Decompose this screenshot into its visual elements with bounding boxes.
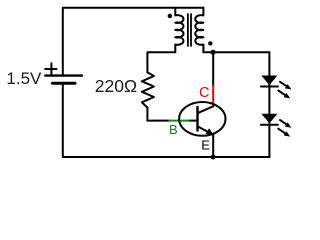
LED D1 arrow 1 head bbox=[285, 84, 292, 89]
LED D1 arrow 2 bbox=[278, 91, 286, 97]
wire top from battery to transformer bbox=[63, 8, 204, 75]
wire base segment green bbox=[169, 120, 190, 122]
wire mid row right (secondary to LEDs) bbox=[203, 51, 269, 53]
transistor Q1 emitter arrowhead bbox=[206, 128, 214, 135]
transformer core lines bbox=[188, 14, 191, 46]
wire collector segment red bbox=[212, 86, 214, 106]
transistor Q1 collector diagonal bbox=[198, 106, 214, 113]
transformer secondary phase dot bbox=[208, 41, 212, 45]
battery BT1 short plate bbox=[53, 82, 76, 85]
transistor Q1 base bar bbox=[196, 107, 198, 131]
wire mid row left + resistor top lead bbox=[147, 52, 175, 72]
svg-text:1.5V: 1.5V bbox=[6, 69, 42, 88]
LED D2 arrow 2 head bbox=[284, 131, 291, 136]
LED D1 cathode bar bbox=[261, 86, 278, 88]
LED D2 cathode bar bbox=[261, 124, 278, 126]
transformer primary phase dot bbox=[168, 14, 172, 18]
junction node emitter/bottom rail bbox=[211, 155, 216, 160]
wire base segment black right to bar bbox=[190, 120, 198, 122]
wire collector branch black upper bbox=[212, 52, 214, 86]
transformer T1 secondary winding bbox=[195, 8, 203, 53]
LED D1 arrow 1 bbox=[280, 82, 288, 87]
LED D2 arrow 1 bbox=[280, 120, 288, 125]
svg-text:B: B bbox=[169, 122, 178, 137]
wire base segment black left bbox=[147, 120, 169, 122]
transformer T1 primary winding bbox=[175, 8, 183, 53]
transistor Q1 emitter diagonal bbox=[198, 126, 214, 135]
battery BT1 long plate bbox=[45, 74, 82, 76]
wire LED branch vertical bbox=[268, 52, 270, 157]
wire resistor bottom lead bbox=[146, 108, 148, 121]
wire battery negative to bottom rail bbox=[63, 84, 270, 157]
LED D2 triangle bbox=[261, 114, 277, 124]
resistor R1 zigzag 220ohm bbox=[142, 72, 154, 107]
LED D2 arrow 1 head bbox=[285, 122, 292, 127]
LED D1 arrow 2 head bbox=[284, 93, 291, 98]
LED D1 triangle bbox=[261, 76, 277, 86]
svg-text:C: C bbox=[199, 85, 209, 101]
svg-text:E: E bbox=[201, 138, 210, 153]
LED D2 arrow 2 bbox=[278, 129, 286, 135]
junction node collector/secondary bbox=[211, 50, 216, 55]
wire emitter to bottom rail bbox=[212, 135, 214, 157]
svg-text:220Ω: 220Ω bbox=[95, 76, 137, 96]
transistor Q1 body ellipse bbox=[179, 102, 225, 136]
battery plus sign bbox=[45, 63, 56, 74]
